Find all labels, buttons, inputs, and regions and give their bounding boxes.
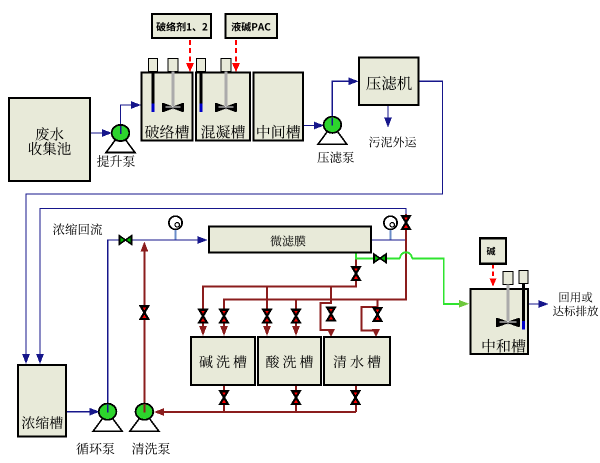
box: 微滤膜 microfiltration membrane bbox=[209, 227, 371, 253]
valve on CIP supply main bbox=[402, 216, 410, 229]
valve on acid tank drain bbox=[292, 391, 300, 404]
tank: 浓缩槽 concentrate tank bbox=[18, 365, 66, 437]
agitator in tank2 bbox=[216, 59, 236, 112]
valve on clean-water tank drop A bbox=[327, 308, 335, 321]
wire: alkali tank bottom drain bbox=[223, 386, 225, 413]
box: 废水收集池 wastewater collection pool bbox=[9, 98, 90, 181]
dosing arrow: alkali to neutralization tank bbox=[490, 264, 497, 287]
wire: membrane reject return to concentrate tank bbox=[36, 209, 406, 365]
label: 污泥外运 sludge transport bbox=[369, 137, 416, 148]
valve on alkali tank drain bbox=[220, 391, 228, 404]
pump: 提升泵 lift pump bbox=[97, 125, 135, 167]
valve on clean-water tank drain bbox=[352, 391, 360, 404]
pump: 循环泵 circulation pump bbox=[76, 404, 122, 455]
valve on alkali tank drop A bbox=[199, 310, 207, 323]
wire: CIP supply main from permeate line bbox=[220, 214, 406, 336]
probe in tank1 bbox=[149, 59, 158, 113]
pressure gauge on membrane feed bbox=[169, 216, 182, 239]
wire: filter-press pump to filter press bbox=[332, 77, 358, 118]
wire: CIP jog drop to clean-water tank (line A) bbox=[321, 287, 336, 337]
wire: filter press to concentrate tank (outer loop) bbox=[22, 81, 442, 364]
dosing arrow: caustic/PAC to tank2 bbox=[232, 40, 240, 72]
tank: 碱洗槽 alkali wash tank bbox=[191, 337, 255, 385]
wire: cleaning pump riser to membrane feed line bbox=[141, 242, 149, 405]
pressure gauge on membrane return bbox=[384, 216, 397, 239]
valve on permeate line bbox=[374, 254, 386, 262]
valve on manifold A riser bbox=[352, 267, 360, 280]
wire: filter press sludge outlet bbox=[384, 105, 392, 128]
tank: 中和槽 neutralization tank bbox=[471, 289, 529, 354]
label: 回用或 达标排放 reuse or discharge bbox=[553, 292, 598, 316]
label box: 液碱PAC bbox=[226, 14, 278, 38]
valve on acid tank drop A bbox=[263, 310, 271, 323]
wire: tank3 to filter-press pump bbox=[303, 122, 324, 130]
label box: 破络剂1、2 bbox=[152, 14, 211, 38]
probe in tank2 bbox=[197, 59, 206, 113]
wire: CIP manifold line A from membrane outlet bbox=[199, 258, 356, 336]
box: 压滤机 filter press bbox=[359, 58, 419, 106]
wire: CIP jog drop to clean-water tank (line B) bbox=[362, 300, 381, 337]
wire: circulation pump to membrane feed bbox=[108, 236, 208, 412]
valve on clean-water tank drop B bbox=[374, 308, 382, 321]
wire: acid tank bottom drain bbox=[295, 386, 297, 413]
wire: CIP drop to acid tank (line A) bbox=[263, 287, 271, 336]
wire: clean-water tank bottom drain bbox=[355, 386, 357, 413]
label: 浓缩回流 concentrate reflux bbox=[53, 223, 102, 235]
valve on membrane feed line bbox=[120, 236, 132, 244]
dosing arrow: chelate breaker to tank1 bbox=[186, 40, 194, 72]
tank: 清水槽 clean water tank bbox=[324, 337, 390, 385]
valve on acid tank drop B bbox=[292, 310, 300, 323]
wire: concentrate tank to circulation pump bbox=[58, 408, 100, 416]
tank: 酸洗槽 acid wash tank bbox=[258, 337, 321, 385]
wire: lift pump to tank1 bbox=[121, 101, 142, 126]
wire: neutralization tank outlet bbox=[528, 300, 549, 308]
probe in neutralization tank bbox=[519, 271, 528, 330]
label box: 碱 alkali bbox=[480, 238, 506, 263]
tank: 混凝槽 coagulation tank bbox=[196, 73, 250, 141]
wire: CIP return line to cleaning pump bbox=[154, 408, 356, 416]
valve on alkali tank drop B bbox=[220, 310, 228, 323]
agitator in tank1 bbox=[163, 59, 183, 112]
pump: 压滤泵 filter-press pump bbox=[318, 117, 355, 163]
tank: 破络槽 chelate-breaking tank bbox=[142, 73, 193, 141]
tank: 中间槽 intermediate tank bbox=[254, 73, 304, 141]
agitator in neutralization tank bbox=[497, 272, 519, 327]
wire: CIP supply drop to acid tank (line B) bbox=[292, 300, 300, 337]
wire: collection pool to lift pump bbox=[90, 129, 112, 137]
wire: membrane permeate to neutralization tank bbox=[356, 252, 469, 307]
valve on cleaning pump riser bbox=[141, 306, 149, 319]
pump: 清洗泵 cleaning pump bbox=[130, 404, 170, 455]
